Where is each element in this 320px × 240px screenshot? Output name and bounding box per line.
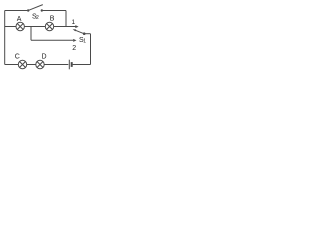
svg-text:C: C bbox=[15, 54, 20, 61]
svg-text:2: 2 bbox=[72, 45, 76, 52]
svg-text:D: D bbox=[42, 54, 47, 61]
svg-text:A: A bbox=[17, 16, 22, 23]
svg-text:2: 2 bbox=[36, 15, 39, 21]
svg-text:B: B bbox=[50, 16, 55, 23]
svg-text:1: 1 bbox=[83, 39, 86, 45]
svg-text:1: 1 bbox=[72, 19, 76, 26]
